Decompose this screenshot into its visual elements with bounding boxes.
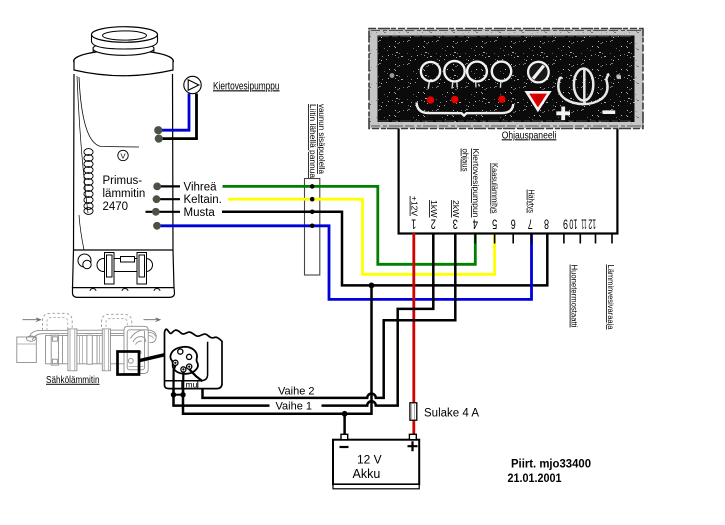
svg-text:Keltain.: Keltain. xyxy=(184,194,222,206)
lead Musta stub xyxy=(146,211,181,213)
junction dot pin wire right xyxy=(180,392,185,397)
svg-text:Sähkölämmitin: Sähkölämmitin xyxy=(46,375,100,386)
label mu xyxy=(182,381,198,388)
wire pump black xyxy=(160,94,197,139)
junction dot battery minus xyxy=(342,411,348,417)
highlight square xyxy=(118,352,140,375)
battery 12V Akku xyxy=(333,440,419,485)
panel bracket curve xyxy=(417,102,514,115)
junction dot pin wire left xyxy=(171,392,176,397)
battery minus post xyxy=(341,434,348,439)
svg-text:Ohjauspaneeli: Ohjauspaneeli xyxy=(502,129,557,141)
led 4 xyxy=(498,96,505,103)
node Vihreä xyxy=(153,183,161,191)
plus symbol xyxy=(556,107,570,121)
svg-text:Lämminvesivaraaja: Lämminvesivaraaja xyxy=(606,265,615,331)
svg-text:+12V: +12V xyxy=(410,196,419,217)
svg-text:Vaihe 1: Vaihe 1 xyxy=(276,400,313,412)
heater flange xyxy=(74,50,174,72)
detail view box mu-connector xyxy=(165,329,223,388)
lead Keltain stub xyxy=(158,198,180,200)
wire black Musta terminal 8 xyxy=(222,212,547,286)
svg-text:Liitin lähellä pannua: Liitin lähellä pannua xyxy=(308,104,317,179)
battery plus post xyxy=(409,434,416,439)
node Keltain xyxy=(153,195,161,203)
svg-text:3: 3 xyxy=(453,217,458,232)
svg-text:Piirt. mjo33400: Piirt. mjo33400 xyxy=(511,459,591,471)
heater cylinder body xyxy=(46,335,125,363)
left inlet box xyxy=(17,337,37,363)
svg-text:12: 12 xyxy=(588,217,596,232)
svg-text:4: 4 xyxy=(472,217,478,232)
svg-text:Vaihe 2: Vaihe 2 xyxy=(278,385,315,397)
electric heater Sähkölämmitin drawing xyxy=(17,313,160,373)
panel screw right xyxy=(616,74,621,79)
inlet arrow xyxy=(23,318,41,322)
wire black 2kW terminal 3 / Vaihe 2 xyxy=(189,233,455,398)
strip junction dots xyxy=(310,184,315,189)
pin 4 xyxy=(181,367,186,372)
knob 1 xyxy=(421,62,440,81)
svg-text:Akku: Akku xyxy=(353,467,381,481)
wire pump blue xyxy=(160,94,189,131)
outlet arrow xyxy=(144,318,161,322)
junction dot black strip wire xyxy=(369,283,375,289)
wire blue terminal 7 xyxy=(160,226,532,300)
svg-text:2kW: 2kW xyxy=(451,200,460,218)
wire green terminal 4 xyxy=(223,186,476,264)
svg-text:8: 8 xyxy=(544,217,549,232)
svg-text:10: 10 xyxy=(569,217,577,232)
svg-text:Kiertovesipumppu: Kiertovesipumppu xyxy=(213,80,280,92)
terminal strip Liitin xyxy=(305,179,320,276)
led 1 xyxy=(427,96,434,103)
knob 2 xyxy=(444,61,464,81)
svg-text:5: 5 xyxy=(492,217,497,232)
pin 2 xyxy=(187,354,192,359)
node Musta xyxy=(152,208,160,216)
svg-text:Kiertovesipumpun: Kiertovesipumpun xyxy=(471,149,480,218)
svg-text:21.01.2001: 21.01.2001 xyxy=(508,473,563,485)
node pump blue xyxy=(154,126,162,134)
wire black ground line C xyxy=(183,285,372,413)
control panel image xyxy=(369,29,643,129)
svg-text:Kaasulämmitys: Kaasulämmitys xyxy=(490,163,499,214)
svg-text:2470: 2470 xyxy=(103,201,129,213)
svg-text:6: 6 xyxy=(511,217,516,232)
led 2 xyxy=(451,96,458,103)
svg-text:Vihreä: Vihreä xyxy=(184,181,218,193)
heater base details xyxy=(78,253,153,285)
terminal ticks 1-12 xyxy=(414,234,612,244)
dashed duct left xyxy=(43,313,73,330)
minus symbol xyxy=(603,110,616,114)
pin 3 wire xyxy=(174,365,176,395)
wire battery minus xyxy=(343,414,346,435)
node blue xyxy=(153,222,161,230)
svg-text:2: 2 xyxy=(431,217,436,232)
svg-text:11: 11 xyxy=(581,217,587,232)
pin 5 wire xyxy=(189,369,202,381)
circulation pump symbol xyxy=(184,76,201,93)
svg-text:12 V: 12 V xyxy=(357,453,382,467)
svg-text:vaunun sisäpuolella: vaunun sisäpuolella xyxy=(317,104,326,175)
svg-text:Primus-: Primus- xyxy=(103,175,143,187)
gauge symbol xyxy=(558,74,608,105)
knob 3 xyxy=(467,62,487,82)
callout line xyxy=(139,354,167,361)
svg-text:9: 9 xyxy=(563,217,568,232)
svg-text:mu: mu xyxy=(186,379,198,389)
wire black 1kW terminal 2 / Vaihe 1 xyxy=(322,233,434,406)
knob 4 xyxy=(492,62,511,81)
svg-text:Musta: Musta xyxy=(184,207,216,219)
warning triangle xyxy=(527,92,550,110)
svg-text:lämmitin: lämmitin xyxy=(103,188,146,200)
pin 5 xyxy=(187,364,192,369)
heater top cap xyxy=(92,34,158,49)
wire red +12V from terminal 1 xyxy=(412,233,415,434)
svg-text:Huonetermostaatti: Huonetermostaatti xyxy=(570,265,579,328)
node pump black xyxy=(155,135,163,143)
heating coil xyxy=(84,149,93,215)
fuse Sulake 4A xyxy=(410,403,417,420)
svg-text:V: V xyxy=(120,152,125,161)
heater boiler Primus-lämmitin body xyxy=(73,74,175,297)
jumper between pin wires xyxy=(174,394,184,396)
battery plus sign xyxy=(408,441,418,451)
pin 4 wire xyxy=(182,372,185,395)
pin 1 xyxy=(178,349,183,354)
svg-text:1: 1 xyxy=(411,217,416,232)
panel screw left xyxy=(390,73,395,78)
connector housing xyxy=(124,326,148,373)
thermostat symbol circle-V xyxy=(118,150,128,160)
terminal numbers 1-12 rotated 180 xyxy=(411,217,596,232)
heater inner pipe curve xyxy=(79,77,139,147)
battery minus sign xyxy=(340,446,349,448)
svg-text:Hälytys: Hälytys xyxy=(527,190,536,214)
wire yellow terminal 5 xyxy=(228,199,495,274)
svg-text:ohjaus: ohjaus xyxy=(461,149,470,172)
svg-text:1kW: 1kW xyxy=(429,200,438,218)
knob 5 with slash xyxy=(528,62,549,83)
svg-text:Sulake 4 A: Sulake 4 A xyxy=(424,408,479,420)
connector face blob xyxy=(170,347,198,374)
control unit box xyxy=(399,126,618,234)
lead Vihreä stub xyxy=(158,185,180,187)
pin 3 xyxy=(173,360,178,365)
outlet pipe curves right xyxy=(148,332,156,336)
svg-text:7: 7 xyxy=(528,217,533,232)
heater neck xyxy=(93,47,154,53)
pipe from inlet xyxy=(27,336,36,341)
dashed duct right xyxy=(102,314,132,327)
